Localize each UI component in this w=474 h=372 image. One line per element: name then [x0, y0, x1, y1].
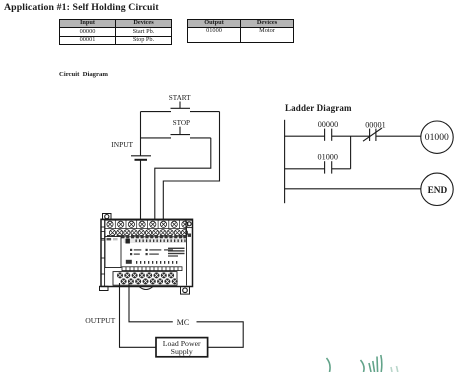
PLC left sub-panel [105, 237, 121, 268]
pushbutton STOP (NC) [171, 119, 191, 134]
battery B1 (input source) [131, 156, 151, 160]
wire: branch vertical [350, 136, 352, 169]
PLC left edge box [101, 232, 105, 239]
PLC lower indicator strip [126, 260, 178, 264]
PLC unit (programmable controller) [100, 214, 193, 295]
svg-text:STOP: STOP [173, 119, 190, 127]
PLC top-left mounting tab [103, 214, 112, 220]
wire: STOP right drop to PLC [155, 138, 211, 219]
wire: MC to load box right [197, 322, 244, 348]
wire: input vertical upper [140, 112, 142, 156]
PLC bottom-right foot [181, 287, 190, 295]
svg-text:INPUT: INPUT [111, 140, 133, 149]
wire: START right drop to PLC [163, 112, 219, 219]
rung 2 wire segments [285, 168, 325, 170]
PLC top-right corner box [186, 220, 193, 227]
section label: Circuit Diagram [59, 71, 108, 78]
output coil 01000 [421, 121, 453, 153]
contact 01000 (NO holding) [318, 153, 338, 174]
wire: START right run [190, 111, 220, 113]
wire: output right to MC contact [129, 283, 173, 322]
PLC bottom terminal block [113, 272, 178, 286]
wire: input vertical lower to PLC [140, 160, 142, 219]
input assignment table [59, 19, 172, 45]
PLC status legend text [130, 249, 173, 255]
PLC outer case [101, 219, 193, 286]
PLC bottom DIN clip bump [139, 287, 153, 290]
wire: input rail to STOP left [141, 137, 172, 139]
ladder left power rail [284, 120, 286, 203]
load power supply box [156, 338, 208, 357]
watermark strokes [327, 355, 398, 372]
svg-text:OUTPUT: OUTPUT [85, 316, 115, 325]
rung 1 wire segments [285, 135, 325, 137]
svg-text:MC: MC [177, 318, 189, 327]
contact 00001 (NC) [363, 120, 386, 141]
wire: STOP right run [190, 137, 211, 139]
PLC brand text block [168, 248, 185, 257]
output assignment table [187, 19, 294, 43]
END instruction block [421, 173, 453, 205]
svg-text:01000: 01000 [425, 132, 449, 143]
PLC top indicator strip [124, 239, 187, 244]
contact 00000 (NO) [318, 120, 338, 141]
svg-text:01000: 01000 [318, 153, 338, 162]
PLC left mounting rail [101, 219, 105, 286]
PLC top terminal block [105, 220, 188, 237]
rung 3 wire [285, 188, 421, 190]
svg-text:START: START [169, 94, 191, 102]
PLC bottom terminal strip divider row [122, 267, 182, 271]
PLC bottom-left foot [100, 286, 109, 290]
document title [4, 2, 159, 13]
section label: Ladder Diagram [285, 103, 352, 113]
wire: output left to load box [120, 283, 156, 347]
svg-text:END: END [428, 186, 448, 196]
svg-text:00001: 00001 [365, 120, 385, 129]
wire: input rail to START left [141, 111, 172, 113]
PLC face right boundary [186, 228, 188, 286]
PLC terminal clamp row [107, 235, 186, 238]
svg-text:00000: 00000 [318, 120, 338, 129]
svg-text:Supply: Supply [171, 347, 193, 356]
pushbutton START (NO) [169, 94, 191, 109]
